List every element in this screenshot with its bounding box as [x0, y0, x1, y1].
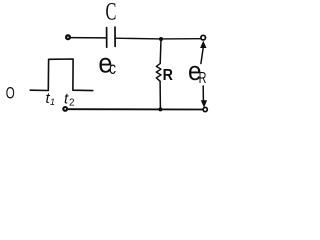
svg-text:C: C	[106, 0, 117, 26]
svg-text:R: R	[199, 69, 207, 86]
svg-text:R: R	[163, 68, 174, 85]
svg-text:2: 2	[69, 98, 75, 109]
svg-text:c: c	[109, 58, 116, 78]
svg-text:O: O	[6, 85, 15, 104]
svg-text:1: 1	[50, 97, 55, 107]
